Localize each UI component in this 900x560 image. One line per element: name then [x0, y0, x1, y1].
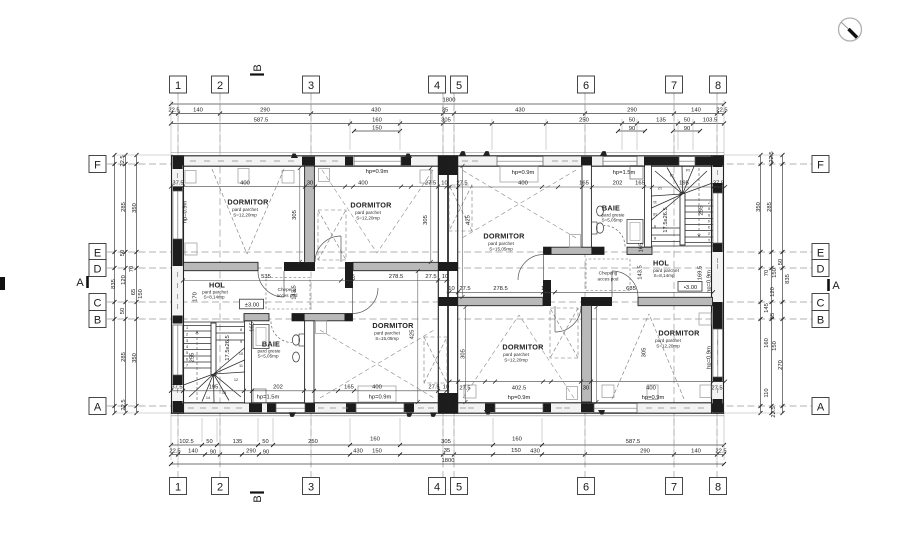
svg-text:BAIE: BAIE	[602, 204, 620, 213]
svg-text:350: 350	[756, 202, 762, 212]
door stub pier hall/bedroom3	[345, 262, 353, 288]
svg-text:12: 12	[234, 378, 238, 382]
svg-text:E: E	[817, 248, 824, 260]
svg-text:Chepeng: Chepeng	[599, 271, 618, 276]
svg-text:HOL: HOL	[653, 259, 669, 268]
svg-text:E: E	[94, 248, 101, 260]
door bedroom2	[315, 236, 341, 262]
staircase left unit	[184, 322, 245, 403]
svg-text:13: 13	[222, 391, 226, 395]
svg-text:5: 5	[456, 482, 462, 494]
svg-text:430: 430	[371, 108, 381, 114]
baie sink	[293, 352, 300, 362]
interior dim row left-mid	[183, 280, 450, 282]
svg-text:pard parchet: pard parchet	[503, 352, 530, 357]
interior wall V1 between bedrooms	[305, 166, 315, 263]
svg-text:65: 65	[131, 289, 137, 295]
svg-text:30: 30	[307, 180, 313, 186]
svg-text:305: 305	[642, 348, 648, 358]
svg-text:17.5x26.5: 17.5x26.5	[663, 207, 669, 232]
window top wall bedroom2	[354, 157, 401, 166]
svg-text:8: 8	[240, 328, 242, 332]
svg-text:400: 400	[646, 385, 656, 391]
svg-text:305: 305	[461, 349, 467, 359]
interior dim row left-top	[171, 186, 450, 188]
svg-text:290: 290	[246, 449, 256, 455]
svg-text:27.5: 27.5	[459, 385, 470, 391]
svg-text:285: 285	[121, 352, 127, 362]
svg-text:3: 3	[186, 339, 188, 343]
svg-text:400: 400	[372, 385, 382, 391]
top sub dimension 150 / 90 / 90	[354, 130, 700, 132]
svg-text:hp=0.9m: hp=0.9m	[707, 346, 713, 369]
svg-text:140: 140	[193, 108, 203, 114]
svg-text:11: 11	[239, 364, 243, 368]
svg-text:B: B	[252, 495, 264, 502]
svg-text:165: 165	[345, 274, 355, 280]
svg-text:278.5: 278.5	[389, 274, 404, 280]
svg-text:150: 150	[138, 289, 144, 299]
svg-text:A: A	[817, 402, 825, 414]
window right wall bedroom	[713, 329, 723, 377]
north/orientation symbol	[839, 18, 862, 41]
axis number boxes bottom	[170, 478, 187, 495]
svg-text:DORMITOR: DORMITOR	[483, 232, 525, 241]
svg-text:F: F	[94, 160, 101, 172]
svg-text:195: 195	[679, 181, 689, 187]
svg-text:Chepeng: Chepeng	[278, 287, 297, 292]
svg-text:165: 165	[639, 243, 645, 253]
baie washing machine	[253, 389, 266, 403]
svg-text:835: 835	[111, 279, 117, 289]
svg-text:A: A	[94, 402, 102, 414]
svg-text:hp=0.9m: hp=0.9m	[369, 394, 392, 400]
roof overhang line bottom	[171, 415, 724, 417]
right unit: rotated copy of left unit interior	[449, 151, 713, 414]
svg-text:4: 4	[434, 482, 440, 494]
svg-text:145: 145	[764, 303, 770, 313]
svg-text:587.5: 587.5	[254, 118, 269, 124]
window top wall right-unit bedroom	[497, 157, 543, 166]
svg-text:S=8,14mp: S=8,14mp	[203, 295, 225, 300]
svg-text:acces pod: acces pod	[277, 293, 298, 298]
level marker +3.00 right	[678, 282, 702, 292]
left margin dimension lines	[115, 155, 137, 413]
svg-text:4: 4	[186, 345, 188, 349]
svg-text:35: 35	[442, 108, 448, 114]
svg-text:50: 50	[120, 308, 126, 314]
svg-text:27.5: 27.5	[425, 180, 436, 186]
right margin dimension lines	[761, 155, 783, 413]
svg-text:22.5: 22.5	[715, 449, 726, 455]
top extension lines	[171, 100, 724, 155]
window right wall big bedroom	[713, 193, 723, 243]
roof overhang line top	[171, 152, 724, 154]
bedroom2 dashed wardrobe	[318, 210, 346, 260]
svg-text:S=12,20mp: S=12,20mp	[504, 358, 528, 363]
svg-text:3: 3	[308, 482, 314, 494]
stair walk line	[195, 331, 199, 400]
svg-text:135: 135	[656, 118, 666, 124]
svg-text:37.5: 37.5	[171, 385, 182, 391]
axis letter boxes right	[812, 156, 829, 173]
svg-text:pard parchet: pard parchet	[232, 207, 259, 212]
window left wall bedroom1	[173, 191, 183, 239]
svg-text:10: 10	[239, 352, 243, 356]
svg-text:165: 165	[635, 181, 645, 187]
svg-text:140: 140	[691, 449, 701, 455]
svg-text:pard parchet: pard parchet	[488, 241, 515, 246]
svg-text:400: 400	[240, 180, 250, 186]
svg-text:22.5: 22.5	[121, 399, 127, 410]
svg-text:255: 255	[699, 206, 705, 216]
svg-text:150: 150	[772, 341, 778, 351]
svg-text:7: 7	[671, 80, 677, 92]
partition V3 stairs/baie	[245, 321, 252, 403]
svg-text:140: 140	[188, 449, 198, 455]
svg-text:285: 285	[121, 202, 127, 212]
svg-text:2: 2	[217, 80, 223, 92]
svg-text:•3.00: •3.00	[684, 285, 697, 291]
svg-text:2: 2	[186, 333, 188, 337]
axis number boxes top	[170, 76, 187, 93]
svg-text:90: 90	[684, 126, 690, 132]
svg-text:165: 165	[250, 322, 256, 332]
svg-text:6: 6	[186, 358, 188, 362]
svg-text:37.5: 37.5	[713, 181, 724, 187]
svg-text:hp=0.9m: hp=0.9m	[707, 270, 713, 293]
svg-text:285: 285	[767, 202, 773, 212]
svg-text:10: 10	[448, 286, 454, 292]
svg-text:22.5: 22.5	[716, 108, 727, 114]
bedroom1 dashed furniture	[212, 169, 284, 254]
svg-text:250: 250	[579, 118, 589, 124]
svg-text:S=15,05mp: S=15,05mp	[489, 247, 513, 252]
svg-text:S=8,14mp: S=8,14mp	[653, 273, 675, 278]
interior wall H2 hall/baie	[244, 314, 269, 321]
svg-text:22.5: 22.5	[771, 406, 777, 417]
door bedroom3	[353, 288, 379, 314]
svg-text:120: 120	[121, 275, 127, 285]
masonry piers right wall	[713, 156, 723, 167]
svg-text:22.5: 22.5	[168, 108, 179, 114]
svg-text:135: 135	[233, 439, 243, 445]
svg-text:50: 50	[120, 250, 126, 256]
window bottom wall bedroom	[356, 403, 404, 412]
svg-text:102.5: 102.5	[179, 439, 194, 445]
pier on wall H1	[284, 262, 315, 271]
svg-text:27.5: 27.5	[711, 385, 722, 391]
svg-text:90: 90	[263, 450, 269, 456]
baie wc	[292, 335, 299, 345]
svg-text:B: B	[817, 315, 824, 327]
svg-text:2: 2	[217, 482, 223, 494]
svg-text:7: 7	[671, 482, 677, 494]
svg-text:202: 202	[273, 385, 283, 391]
svg-text:pard parchet: pard parchet	[374, 331, 401, 336]
svg-text:202: 202	[613, 181, 623, 187]
party wall piers	[438, 156, 447, 175]
svg-text:DORMITOR: DORMITOR	[350, 201, 392, 210]
svg-text:425: 425	[466, 215, 472, 225]
svg-text:430: 430	[530, 449, 540, 455]
svg-text:400: 400	[518, 181, 528, 187]
svg-text:14: 14	[206, 396, 210, 400]
top dimension line row2	[171, 113, 724, 115]
svg-text:10: 10	[442, 274, 448, 280]
interior wall V2 baie/bedroom3	[305, 316, 314, 403]
svg-text:F: F	[817, 160, 824, 172]
svg-text:120: 120	[770, 287, 776, 297]
svg-text:D: D	[94, 264, 102, 276]
svg-text:103.5: 103.5	[703, 118, 718, 124]
svg-text:9: 9	[240, 340, 242, 344]
svg-text:±3.00: ±3.00	[245, 303, 259, 309]
svg-text:350: 350	[132, 353, 138, 363]
svg-text:1: 1	[175, 80, 181, 92]
svg-text:305: 305	[441, 439, 451, 445]
interior vertical dim lines	[300, 166, 597, 402]
axis letter boxes left	[89, 156, 106, 173]
svg-text:hp=1.5m: hp=1.5m	[257, 394, 280, 400]
svg-text:290: 290	[627, 108, 637, 114]
masonry piers left wall	[173, 156, 183, 169]
svg-text:BAIE: BAIE	[262, 340, 280, 349]
top dimension line row3	[171, 123, 724, 125]
svg-text:305: 305	[441, 118, 451, 124]
svg-text:27.5: 27.5	[428, 385, 439, 391]
svg-text:DORMITOR: DORMITOR	[372, 321, 414, 330]
top dimension line 1800	[171, 103, 724, 105]
exterior wall bottom band	[172, 403, 724, 413]
svg-text:425: 425	[410, 330, 416, 340]
svg-text:150: 150	[772, 268, 778, 278]
svg-text:pard parchet: pard parchet	[355, 210, 382, 215]
bottom dimension line row1	[171, 444, 724, 446]
svg-text:170: 170	[193, 292, 199, 302]
interior dim row left-bottom	[171, 390, 450, 392]
svg-text:50: 50	[262, 439, 268, 445]
svg-text:110: 110	[764, 388, 770, 397]
svg-text:90: 90	[210, 450, 216, 456]
svg-text:10: 10	[441, 180, 447, 186]
svg-text:hp=0.9m: hp=0.9m	[508, 395, 531, 401]
svg-text:S=5,05mp: S=5,05mp	[601, 218, 623, 223]
svg-text:6: 6	[583, 482, 589, 494]
svg-text:D: D	[817, 264, 825, 276]
svg-text:S=15,05mp: S=15,05mp	[375, 336, 399, 341]
svg-text:8: 8	[715, 80, 721, 92]
svg-text:DORMITOR: DORMITOR	[227, 198, 269, 207]
svg-text:27.5: 27.5	[459, 286, 470, 292]
svg-text:A: A	[832, 280, 840, 292]
door bedroom1	[258, 271, 284, 297]
exterior wall right band	[712, 156, 724, 413]
svg-text:160: 160	[764, 338, 770, 348]
svg-text:37.5: 37.5	[172, 180, 183, 186]
interior dim row right-bottom	[447, 381, 726, 383]
svg-text:587.5: 587.5	[626, 439, 641, 445]
interior dim row right-top	[447, 186, 726, 188]
bottom extension lines	[171, 413, 724, 460]
svg-text:400: 400	[358, 180, 368, 186]
masonry piers bottom wall	[173, 403, 184, 412]
svg-text:195: 195	[209, 385, 219, 391]
svg-text:10: 10	[443, 385, 449, 391]
window bottom wall right-unit bedroom2	[594, 403, 637, 412]
svg-text:70: 70	[129, 266, 135, 272]
svg-text:1: 1	[175, 482, 181, 494]
exterior wall top band	[172, 156, 724, 166]
svg-text:150: 150	[372, 449, 382, 455]
svg-text:22.5: 22.5	[120, 155, 126, 166]
interior dim row right-mid	[447, 291, 714, 293]
svg-text:C: C	[94, 298, 102, 310]
svg-text:6: 6	[583, 80, 589, 92]
svg-text:160: 160	[372, 118, 382, 124]
svg-text:hp=0.9m: hp=0.9m	[366, 169, 389, 175]
svg-text:165: 165	[541, 286, 551, 292]
svg-text:A: A	[76, 277, 84, 289]
window left wall stairs	[173, 325, 183, 375]
svg-text:35: 35	[444, 448, 450, 454]
axis grid dashed lines	[178, 93, 717, 477]
svg-text:143.5: 143.5	[638, 265, 644, 280]
wall hatch marks	[178, 161, 718, 408]
svg-text:305: 305	[423, 215, 429, 225]
svg-text:350: 350	[132, 203, 138, 213]
svg-text:165: 165	[344, 385, 354, 391]
piers on wall H2	[292, 313, 305, 321]
bedroom3 dashed wardrobe	[424, 337, 447, 383]
svg-text:4: 4	[434, 80, 440, 92]
bedroom1 wardrobe boxes	[185, 169, 432, 403]
party wall left half	[438, 156, 447, 413]
svg-text:1800: 1800	[442, 458, 455, 464]
svg-text:65: 65	[770, 313, 776, 319]
svg-text:hp=0.9m: hp=0.9m	[642, 395, 665, 401]
window top wall right-unit baie	[603, 157, 637, 166]
svg-text:430: 430	[353, 449, 363, 455]
svg-text:50: 50	[684, 118, 690, 124]
svg-text:3: 3	[308, 80, 314, 92]
svg-text:255: 255	[190, 353, 196, 363]
svg-text:305: 305	[292, 210, 298, 220]
svg-text:B: B	[94, 315, 101, 327]
stair step numbers	[186, 326, 243, 400]
window top wall right-unit stairs	[679, 157, 695, 166]
svg-text:250: 250	[308, 439, 318, 445]
svg-text:278.5: 278.5	[493, 286, 508, 292]
svg-text:150: 150	[511, 448, 521, 454]
svg-text:140: 140	[691, 108, 701, 114]
svg-text:17.5x26.5: 17.5x26.5	[225, 335, 231, 360]
svg-text:835: 835	[785, 274, 791, 284]
bottom dimension line row2	[171, 454, 724, 456]
svg-text:70: 70	[764, 270, 770, 276]
svg-text:50: 50	[206, 439, 212, 445]
svg-text:22.5: 22.5	[169, 449, 180, 455]
svg-text:S=12,20mp: S=12,20mp	[356, 216, 380, 221]
svg-text:402.5: 402.5	[512, 385, 527, 391]
door baie dashed	[271, 322, 292, 343]
svg-text:C: C	[817, 298, 825, 310]
bedroom3 dashed floor X	[320, 330, 434, 398]
level marker +3.00 left	[240, 299, 264, 309]
svg-text:27.5: 27.5	[425, 274, 436, 280]
svg-text:290: 290	[640, 449, 650, 455]
svg-text:5: 5	[186, 351, 188, 355]
svg-text:22.5: 22.5	[769, 151, 775, 162]
svg-text:7: 7	[186, 364, 188, 368]
svg-text:acces pod: acces pod	[598, 277, 619, 282]
svg-text:160: 160	[370, 437, 380, 443]
window bottom wall baie	[276, 403, 305, 412]
svg-text:430: 430	[515, 108, 525, 114]
svg-text:635: 635	[626, 286, 636, 292]
chepeng acces pod hatch box	[266, 278, 310, 310]
window bottom wall right-unit bedroom	[495, 403, 543, 412]
svg-text:DORMITOR: DORMITOR	[502, 343, 544, 352]
svg-text:hp=0.9m: hp=0.9m	[183, 200, 189, 223]
bottom dimension line 1800	[171, 463, 724, 465]
svg-text:HOL: HOL	[209, 281, 225, 290]
svg-text:hp=1.5m: hp=1.5m	[613, 170, 636, 176]
svg-text:160: 160	[512, 437, 522, 443]
masonry piers top wall	[173, 157, 184, 166]
svg-text:pard parchet: pard parchet	[655, 338, 682, 343]
bedroom2 dashed furniture V	[322, 170, 433, 253]
svg-text:27.5: 27.5	[456, 181, 467, 187]
svg-text:S=12,20mp: S=12,20mp	[656, 344, 680, 349]
left edge print mark	[0, 277, 5, 290]
svg-text:165: 165	[579, 181, 589, 187]
svg-text:5: 5	[456, 80, 462, 92]
svg-text:1800: 1800	[443, 98, 456, 104]
svg-text:290: 290	[260, 108, 270, 114]
svg-text:150: 150	[372, 126, 382, 132]
exterior wall left band	[172, 156, 184, 413]
baie shower tray	[253, 325, 269, 349]
svg-text:90: 90	[629, 126, 635, 132]
svg-text:50: 50	[778, 259, 784, 265]
svg-text:8: 8	[715, 482, 721, 494]
party wall right half	[448, 156, 457, 413]
svg-text:50: 50	[629, 118, 635, 124]
svg-text:S=12,20mp: S=12,20mp	[233, 213, 257, 218]
interior wall H1 (bedrooms / hall)	[184, 262, 259, 270]
svg-text:169.5: 169.5	[698, 266, 704, 281]
svg-text:DORMITOR: DORMITOR	[658, 329, 700, 338]
window flag marks	[289, 154, 437, 417]
svg-text:30: 30	[583, 385, 589, 391]
svg-text:hp=0.9m: hp=0.9m	[512, 170, 535, 176]
svg-text:1: 1	[186, 326, 188, 330]
svg-text:535: 535	[261, 274, 271, 280]
svg-text:S=5,05mp: S=5,05mp	[257, 354, 279, 359]
svg-text:B: B	[252, 64, 264, 71]
svg-text:270: 270	[778, 360, 784, 370]
